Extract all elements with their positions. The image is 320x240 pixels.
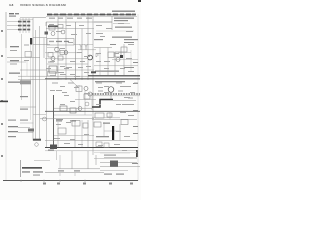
bus vertical 4 faint: [30, 45, 32, 120]
wire Q601 emitter: [110, 92, 112, 100]
bus vertical 3: [39, 26, 41, 141]
svg-text:VIDEO SIGNALS DIAGRAM: VIDEO SIGNALS DIAGRAM: [20, 3, 66, 7]
bus vertical x27: [26, 60, 28, 76]
wire pair 79.4: [18, 78, 62, 80]
capacitor C403 dark: [120, 55, 123, 58]
delay line DL301: [49, 66, 57, 73]
grid letter A: [1, 30, 3, 32]
wire input 2: [7, 25, 19, 27]
connector pin verticals: [20, 18, 29, 33]
capacitor C210: [25, 52, 32, 58]
box above bus: [48, 72, 56, 77]
wire 117.8: [92, 117, 120, 119]
wire bottom 166.5: [100, 166, 140, 168]
drop wire x72: [71, 151, 73, 169]
transistor Q503: [85, 102, 89, 106]
bus vertical 1: [32, 18, 34, 141]
power bus double line upper: [88, 75, 140, 77]
resistor R521: [58, 128, 66, 134]
wire low 135.5: [54, 135, 94, 137]
transistor Q502: [88, 92, 92, 96]
resistor R520: [72, 121, 80, 127]
wire lower mid 1: [54, 107, 92, 109]
grid number 5: [130, 183, 133, 185]
wire stub 114.5: [33, 114, 46, 116]
IC301 box outline: [47, 39, 74, 46]
connector CN503 dark: [50, 145, 57, 150]
bus vertical x21: [21, 34, 23, 100]
diode D401: [96, 53, 99, 57]
connector label row 1: [18, 21, 30, 23]
connector label row 2: [18, 25, 30, 27]
resistor R511: [70, 108, 76, 113]
wire lower mid 4: [54, 118, 94, 120]
label tick 2: [20, 109, 28, 110]
signal band dashed: [92, 93, 140, 95]
note line 2a: [22, 171, 30, 172]
wire right 23.5: [113, 23, 130, 25]
wire pair 76.2: [18, 75, 88, 77]
resistor R510: [60, 106, 67, 111]
transistor Q505: [43, 117, 47, 121]
wire top horizontal: [33, 37, 47, 39]
capacitor C611: [96, 142, 102, 147]
capacitor C202 dark: [45, 32, 49, 35]
signal band rule: [92, 95, 140, 97]
wire bottom 170.7: [100, 170, 128, 172]
IC301 pin labels: [49, 41, 69, 42]
wire stub 118.8: [40, 118, 54, 120]
board outline mid vertical: [46, 22, 48, 147]
wire low 140.5: [45, 140, 137, 142]
electrolytic C610 dark body: [112, 126, 114, 140]
header pin row bus: [46, 14, 137, 17]
label 154: [104, 155, 116, 156]
transistor Q510: [35, 143, 39, 147]
resistor R402: [115, 52, 121, 57]
net vertical x124: [123, 44, 125, 75]
wire right 158: [94, 158, 137, 160]
wire top pair 2: [20, 18, 33, 20]
frame right border: [137, 14, 139, 181]
net vertical x88 low: [87, 120, 89, 147]
value labels texture: [10, 23, 138, 151]
corner mark top right: [138, 0, 141, 2]
drop wire x56: [56, 151, 58, 160]
net vertical x85: [84, 91, 86, 115]
resistor R502: [84, 94, 90, 99]
wire mid 47: [47, 47, 58, 49]
grid tick a: [20, 180, 22, 183]
capacitor C601: [95, 113, 104, 118]
wire right 152: [94, 152, 137, 154]
wire from IC301 right: [74, 44, 93, 46]
net vertical x79: [78, 85, 80, 110]
wire input 3: [7, 29, 19, 31]
label arrow left 2: [8, 131, 34, 133]
note line 2b: [33, 171, 43, 172]
label under C610: [96, 136, 109, 137]
node vertical right: [111, 16, 113, 30]
wire low 150.8: [45, 150, 137, 152]
label lower left: [8, 82, 20, 83]
connector CN601 hatched: [110, 161, 118, 168]
net vertical x75 low: [74, 120, 76, 147]
grid tick c: [59, 180, 61, 183]
wire mid 58: [45, 58, 87, 60]
wire mid 64: [47, 63, 88, 65]
transistor Q304 dark: [88, 55, 93, 60]
resistor R310: [48, 53, 53, 58]
resistor R603: [121, 120, 128, 125]
wire left mid 3: [33, 44, 50, 46]
wire input 1: [7, 21, 19, 23]
wire left mid 2: [20, 69, 47, 71]
label block right top 1: [114, 18, 134, 19]
wire left 62: [7, 61, 26, 63]
net vertical x53 dark: [53, 95, 55, 148]
transistor Q303: [51, 57, 55, 61]
net vertical x131: [130, 50, 132, 72]
grid number 1: [43, 183, 46, 185]
net vertical x82: [81, 29, 83, 81]
grid tick d: [84, 180, 86, 183]
label bottom 1: [58, 170, 64, 171]
label right mid 2: [112, 37, 132, 38]
grid letter B: [1, 55, 3, 57]
label line2: [9, 16, 16, 17]
resistor R201: [49, 27, 55, 31]
wire 119.5: [92, 119, 137, 121]
label tick 1: [20, 96, 28, 97]
connector label row 3: [18, 29, 30, 31]
note line 1: [22, 167, 42, 169]
power bus double line lower: [45, 78, 140, 80]
label bottom r2: [116, 174, 124, 175]
note block rule: [20, 160, 22, 177]
net vertical x44: [43, 38, 45, 58]
dark bus segment top: [48, 25, 58, 27]
label right texts: [94, 39, 138, 68]
net vertical x58: [57, 17, 59, 81]
resistor R601: [94, 122, 101, 127]
label row above right: [112, 11, 135, 12]
wire bottom 172.6: [45, 172, 104, 174]
frame left border lower: [5, 48, 7, 181]
wire right 31: [96, 30, 134, 32]
net vertical x120: [119, 124, 121, 141]
diode D301: [80, 45, 83, 50]
wire bottom 153: [100, 152, 130, 154]
label cluster blob: [20, 80, 31, 84]
label 56 119: [56, 119, 63, 120]
tick x60: [59, 173, 61, 176]
capacitor C602: [107, 113, 112, 117]
net vertical x88: [87, 17, 89, 81]
wire right 52.5: [118, 52, 131, 54]
wire right top: [94, 21, 112, 23]
right border dark end: [136, 150, 138, 157]
drop wire x60: [59, 155, 61, 169]
wire mid 70: [47, 69, 94, 71]
resistor R501: [76, 86, 82, 92]
drop wire x96: [95, 155, 97, 165]
board boundary vertical x93: [92, 17, 94, 156]
label right mid 1: [115, 27, 132, 28]
thick stepped bus: [92, 100, 113, 108]
capacitor C612: [104, 143, 109, 148]
electrolytic C201 dark body: [30, 38, 32, 45]
wire bottom 157.5: [104, 157, 137, 159]
label top pair a: [8, 120, 16, 121]
grid letter D: [1, 100, 3, 102]
wire right 111: [92, 110, 140, 112]
label 120 a: [56, 120, 62, 121]
note stub line: [34, 160, 50, 162]
grid tick b: [43, 180, 45, 183]
wire bottom 168.8: [58, 168, 100, 170]
label R602: [103, 123, 110, 124]
label arrow left 3: [8, 136, 16, 137]
label bottom r1: [104, 174, 112, 175]
diode D302: [85, 45, 88, 50]
label VIDEO IN: [9, 13, 14, 14]
board outline top edge: [33, 17, 46, 19]
net vertical x66: [65, 17, 67, 81]
grid number 4: [109, 183, 112, 185]
label 120 b: [70, 120, 76, 121]
net vertical x58 low: [57, 122, 59, 147]
wire lower mid 2: [45, 110, 92, 112]
net vertical x82 low: [81, 120, 83, 147]
wire left mid 1: [7, 57, 40, 59]
label arrow left 1: [8, 126, 30, 128]
label 149: [48, 150, 54, 151]
wire diagonal: [70, 79, 78, 87]
transistor Q503b: [78, 107, 82, 111]
wire hook top: [45, 22, 47, 26]
transistor Q202: [61, 30, 65, 34]
wire y131: [104, 130, 120, 132]
transistor Q403: [116, 58, 120, 62]
resistor R401: [108, 52, 114, 58]
pin label row 2: [49, 18, 92, 19]
grid letter C: [1, 78, 3, 80]
transistor Q501: [84, 87, 88, 91]
label TP202: [10, 60, 19, 61]
wire right 65.8: [94, 65, 138, 67]
resistor R202: [58, 25, 63, 29]
wire mid 49.8: [78, 49, 96, 51]
resistor R403: [121, 47, 127, 52]
label above bus right: [95, 71, 119, 72]
label block right top 2: [114, 20, 128, 21]
net vertical x92: [91, 96, 93, 110]
frame left border upper: [5, 12, 7, 48]
wire y123: [20, 122, 34, 124]
net vertical x115: [114, 52, 116, 75]
resistor R312: [58, 56, 63, 60]
wire right 100.5: [113, 100, 136, 102]
net vertical x104: [103, 122, 105, 136]
frame bottom border: [3, 180, 138, 182]
transistor Q301: [55, 47, 60, 52]
wire top pair 1: [20, 17, 33, 19]
grid number 3: [83, 183, 86, 185]
wire mid top: [46, 21, 112, 23]
tick x75: [74, 173, 76, 176]
grid letter F: [1, 155, 3, 157]
net vertical x110 up: [109, 111, 111, 120]
transistor Q601: [108, 87, 114, 93]
wire right 59.5: [112, 59, 138, 61]
label row lower right: [95, 81, 125, 82]
label TP201: [10, 46, 19, 47]
label bottom 2: [74, 170, 80, 171]
svg-text:3-8: 3-8: [9, 3, 14, 7]
net vertical x75: [75, 22, 77, 80]
dark blob before bus: [91, 71, 96, 73]
label TP203: [9, 73, 20, 74]
wire mid 52: [45, 52, 80, 54]
wire bottom 162.5: [100, 162, 137, 164]
right margin notes: [132, 62, 138, 164]
connector CN502 blob: [28, 129, 34, 132]
grid letter E: [1, 123, 3, 125]
bus vertical 2: [35, 30, 37, 141]
resistor R311: [60, 51, 65, 55]
wire 99.5: [75, 99, 96, 101]
wire lower left: [20, 106, 36, 108]
drop wire x88: [87, 151, 89, 169]
ground bus dark low: [45, 147, 138, 149]
transistor Q302: [64, 51, 68, 55]
label top pair b: [20, 120, 28, 121]
wire right 47.5: [94, 47, 112, 49]
resistor R522: [83, 123, 88, 128]
wire y28: [46, 28, 94, 30]
net vertical x100: [99, 48, 101, 76]
bus junction dark: [33, 139, 41, 141]
net vertical x108: [107, 48, 109, 76]
ground stub dark left: [0, 101, 8, 103]
label Y/C IN: [15, 13, 19, 14]
grid number 2: [57, 183, 60, 185]
note line 3: [33, 175, 40, 176]
transistor Q201: [51, 32, 55, 36]
wire lower mid 3: [54, 114, 92, 116]
